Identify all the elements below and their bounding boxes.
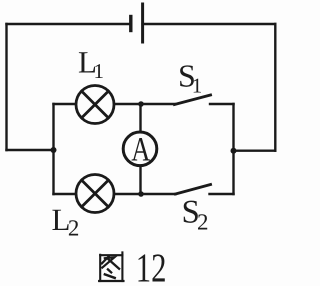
wire left outer vertical <box>5 24 7 150</box>
图 inner dot 2 <box>105 274 115 278</box>
wire ammeter branch lower vertical <box>139 166 141 194</box>
svg-text:12: 12 <box>136 245 167 286</box>
label S2 <box>182 195 209 235</box>
caption: hand-drawn CJK character 图 <box>99 252 123 281</box>
node left junction dot <box>51 147 57 153</box>
图 inner stroke na (down-right) <box>107 258 119 268</box>
wire S2 fixed side to right corner <box>210 193 234 195</box>
svg-text:2: 2 <box>68 216 80 241</box>
wire left inner vertical (junction to branches) <box>52 104 54 194</box>
svg-text:1: 1 <box>94 59 105 83</box>
battery cell: short negative plate <box>129 17 132 31</box>
wire top-right horizontal (battery right lead) <box>143 23 276 25</box>
图 box left vertical <box>99 255 101 281</box>
wire middle-left horizontal <box>7 149 54 151</box>
wire bottom branch right segment (to switch S2) <box>141 193 176 195</box>
switch S2 lever <box>176 185 211 195</box>
svg-text:1: 1 <box>192 74 203 98</box>
node right junction dot <box>231 148 237 154</box>
label S1 <box>178 58 202 98</box>
node ammeter top junction dot <box>138 101 144 107</box>
wire top branch middle segment <box>114 103 141 105</box>
图 inner dot 1 <box>108 269 111 272</box>
图 inner stroke pie (down-left) <box>102 256 109 263</box>
label L1 <box>78 44 104 83</box>
wire S1 fixed side to right corner <box>210 103 234 105</box>
lamp L2 <box>76 175 114 213</box>
battery cell: long positive plate <box>141 4 144 42</box>
switch S1 lever <box>175 95 211 105</box>
图 inner stroke heng-pie <box>102 257 114 267</box>
图 box top horizontal <box>100 254 122 256</box>
svg-text:A: A <box>131 131 151 168</box>
label L2 <box>52 202 80 241</box>
ammeter A1 <box>123 132 157 166</box>
wire ammeter branch upper vertical <box>139 104 141 132</box>
wire top branch left segment <box>54 103 76 105</box>
图 box right vertical <box>121 252 123 281</box>
node ammeter bottom junction dot <box>138 191 144 197</box>
wire top branch right segment (to switch S1) <box>141 103 175 105</box>
wire top-left horizontal (battery left lead) <box>7 23 130 25</box>
wire middle-right horizontal <box>234 149 276 151</box>
wire bottom branch middle segment <box>114 193 141 195</box>
wire bottom branch left segment <box>54 193 76 195</box>
wire right inner vertical (top corner to bottom corner) <box>232 104 234 194</box>
wire right outer vertical <box>274 24 276 151</box>
lamp L1 <box>76 86 114 124</box>
图 box bottom horizontal <box>99 280 123 282</box>
svg-text:2: 2 <box>197 210 209 235</box>
